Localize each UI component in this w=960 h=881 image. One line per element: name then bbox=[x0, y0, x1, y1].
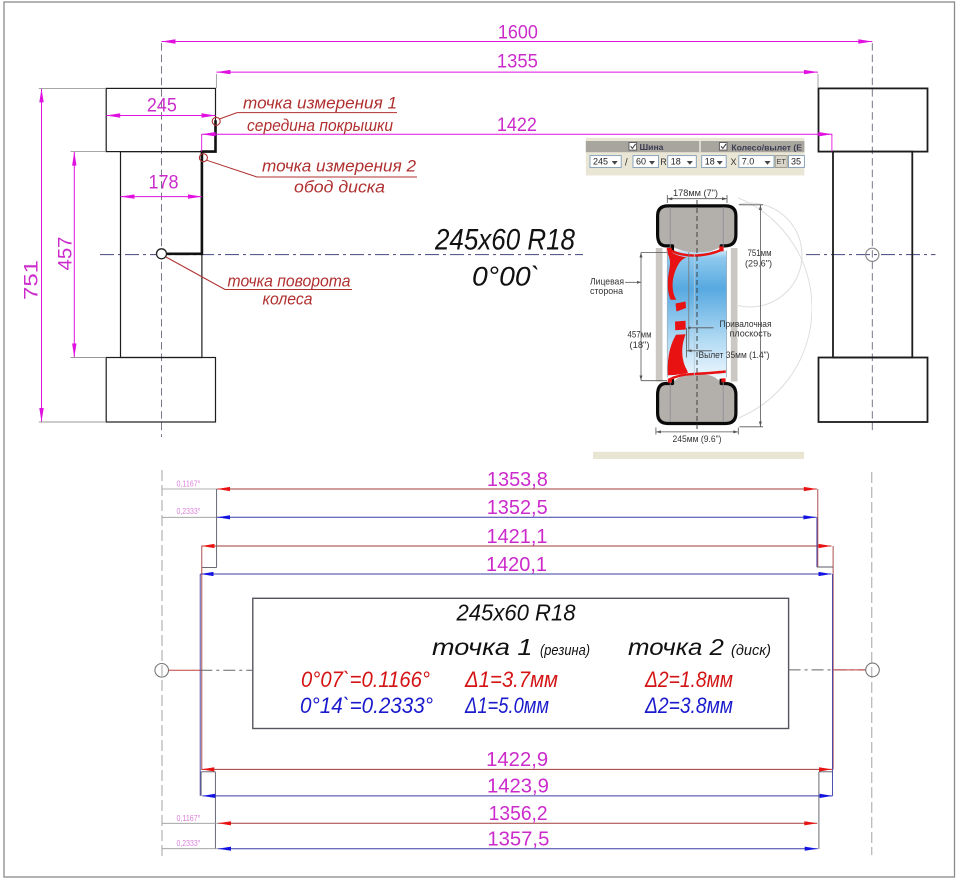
screenshot dim vylet 35mm bbox=[687, 328, 770, 360]
svg-text:245мм (9.6"): 245мм (9.6") bbox=[673, 434, 722, 444]
svg-text:0°00`: 0°00` bbox=[472, 262, 540, 292]
witness left jog bottom bbox=[201, 771, 215, 773]
witness right bottom vertical bbox=[818, 772, 820, 849]
svg-text:1352,5: 1352,5 bbox=[487, 496, 548, 519]
svg-text:Δ1=5.0мм: Δ1=5.0мм bbox=[464, 693, 549, 718]
tire sidewall strip right bbox=[731, 248, 738, 382]
dimension 457 bbox=[55, 152, 107, 358]
svg-text:точка измерения 1: точка измерения 1 bbox=[243, 95, 397, 113]
label pivot: tochka povorota kolesa bbox=[166, 257, 352, 309]
results table box bbox=[253, 598, 789, 728]
svg-text:Колесо/вылет (Е: Колесо/вылет (Е bbox=[731, 142, 802, 152]
svg-text:1422: 1422 bbox=[497, 114, 537, 136]
rim spoke upper red bbox=[667, 249, 687, 300]
svg-text:0°07`=0.1166°: 0°07`=0.1166° bbox=[301, 667, 430, 692]
dimension 178 bbox=[121, 171, 202, 199]
witness left red vertical bbox=[201, 546, 203, 769]
mounting plane thin line bbox=[688, 252, 690, 351]
svg-text:ET: ET bbox=[776, 157, 786, 166]
witness left bottom vertical bbox=[214, 772, 216, 849]
svg-text:(18"): (18") bbox=[630, 340, 650, 350]
svg-text:0,2333°: 0,2333° bbox=[177, 507, 201, 516]
witness left tire vertical bbox=[216, 489, 218, 568]
svg-text:1356,2: 1356,2 bbox=[489, 802, 548, 825]
svg-text:сторона: сторона bbox=[590, 286, 623, 296]
witness right jog bottom bbox=[819, 771, 833, 773]
rim red segment mid bbox=[676, 302, 687, 312]
screenshot label litsevaya storona bbox=[590, 277, 641, 297]
bottom tire block bbox=[657, 374, 736, 424]
screenshot dim 245mm bbox=[656, 428, 738, 445]
svg-text:Δ2=1.8мм: Δ2=1.8мм bbox=[644, 667, 733, 692]
dropdown R18 bbox=[668, 156, 697, 168]
svg-text:точка поворота: точка поворота bbox=[228, 273, 351, 291]
svg-text:R: R bbox=[660, 157, 667, 167]
checkbox shina bbox=[629, 143, 637, 151]
witness right blue vertical bbox=[832, 574, 834, 796]
barrel edge line right bbox=[726, 251, 728, 378]
screenshot dim 751mm bbox=[739, 205, 772, 427]
ext line bottom B7 bbox=[162, 822, 218, 824]
svg-text:0,1167°: 0,1167° bbox=[177, 479, 201, 488]
svg-text:1423,9: 1423,9 bbox=[487, 775, 549, 798]
screenshot white background bbox=[584, 136, 806, 460]
svg-text:Шина: Шина bbox=[640, 142, 664, 152]
bottom right dashed centerline vertical bbox=[871, 472, 873, 855]
tire sidewall strip left bbox=[656, 248, 663, 382]
right wheel vertical centerline bbox=[871, 43, 873, 433]
field 35 bbox=[789, 156, 805, 168]
dropdown 7.0 bbox=[739, 156, 774, 168]
barrel inner faint line bbox=[693, 252, 695, 377]
right wheel tire bottom rectangle bbox=[819, 358, 928, 423]
witness right red vertical bbox=[832, 546, 834, 769]
svg-text:751: 751 bbox=[21, 260, 43, 300]
dimension 1421,1 bbox=[202, 525, 832, 548]
svg-text:1353,8: 1353,8 bbox=[487, 468, 548, 491]
svg-text:178мм (7"): 178мм (7") bbox=[673, 188, 718, 198]
svg-text:457: 457 bbox=[55, 237, 77, 271]
dimension 1600 bbox=[162, 22, 873, 44]
svg-text:18: 18 bbox=[671, 157, 681, 167]
svg-text:/: / bbox=[625, 157, 628, 168]
dimension 1422 bbox=[202, 114, 833, 151]
svg-text:1421,1: 1421,1 bbox=[487, 525, 548, 548]
svg-text:Вылет 35мм (1.4"): Вылет 35мм (1.4") bbox=[699, 350, 770, 360]
svg-text:1600: 1600 bbox=[498, 22, 538, 44]
left wheel measurement polyline thick bbox=[167, 120, 216, 254]
dimension 1423,9 bbox=[202, 775, 832, 798]
rim width line left inside bottom tire bbox=[669, 382, 671, 422]
svg-text:245x60 R18: 245x60 R18 bbox=[434, 224, 575, 257]
svg-text:середина покрышки: середина покрышки bbox=[247, 117, 393, 135]
svg-text:точка измерения 2: точка измерения 2 bbox=[262, 158, 416, 176]
witness left blue vertical bbox=[199, 574, 201, 796]
ext line top A2 bbox=[162, 516, 217, 518]
ET button bbox=[775, 156, 787, 168]
top tire block bbox=[657, 206, 736, 252]
bottom centerline red segment left bbox=[169, 669, 201, 671]
witness right blue vertical top bbox=[816, 517, 818, 567]
axle centerline horizontal right segment bbox=[806, 254, 936, 256]
svg-text:245: 245 bbox=[147, 95, 177, 117]
svg-text:245x60 R18: 245x60 R18 bbox=[456, 600, 576, 626]
dimension 1356,2 bbox=[218, 802, 817, 825]
left wheel pivot circle bbox=[157, 249, 167, 259]
bottom left dashed centerline vertical bbox=[161, 470, 163, 856]
dimension 1355 bbox=[216, 50, 818, 88]
label point 1: tochka izmereniya 1 / seredina pokryshki bbox=[212, 95, 397, 135]
right wheel rim rectangle bbox=[833, 152, 912, 358]
rim width line right inside bottom tire bbox=[722, 382, 724, 422]
svg-text:0,2333°: 0,2333° bbox=[177, 839, 201, 848]
svg-text:X: X bbox=[730, 157, 736, 167]
svg-text:245: 245 bbox=[593, 157, 608, 167]
screenshot dim 178mm label bbox=[667, 188, 727, 203]
left wheel vertical centerline bbox=[161, 43, 163, 437]
svg-text:1355: 1355 bbox=[497, 50, 538, 72]
calculator beige panel bbox=[586, 138, 805, 176]
svg-text:обод диска: обод диска bbox=[294, 178, 385, 196]
svg-text:1422,9: 1422,9 bbox=[486, 748, 548, 771]
svg-text:0°14`=0.2333°: 0°14`=0.2333° bbox=[300, 693, 433, 718]
axle centerline horizontal left segment bbox=[100, 254, 583, 256]
dimension 1420,1 bbox=[201, 553, 832, 576]
rim red hub block bbox=[675, 321, 686, 331]
bottom centerline right circle bbox=[866, 663, 880, 677]
bottom centerline dash left bbox=[200, 669, 253, 671]
dimension 1353,8 bbox=[217, 468, 817, 491]
screenshot bottom beige bar bbox=[593, 452, 804, 459]
svg-text:1357,5: 1357,5 bbox=[487, 828, 549, 851]
tire centerline dashed bbox=[696, 200, 698, 430]
screenshot label privalochnaya ploskost bbox=[688, 319, 772, 339]
witness right red vertical top bbox=[817, 489, 819, 567]
svg-text:0,1167°: 0,1167° bbox=[177, 814, 201, 823]
left wheel tire bottom rectangle bbox=[106, 358, 215, 423]
rim width line left inside top tire bbox=[669, 207, 671, 247]
dimension 1422,9 bbox=[201, 748, 832, 771]
checkbox koleso bbox=[719, 143, 727, 151]
rim width line right inside top tire bbox=[722, 207, 724, 247]
svg-text:457мм: 457мм bbox=[628, 330, 652, 340]
ext line top A1 bbox=[162, 488, 217, 490]
svg-text:Привалочная: Привалочная bbox=[720, 319, 772, 329]
label point 2: tochka izmereniya 2 / obod diska bbox=[199, 154, 417, 197]
left wheel rim rectangle bbox=[121, 152, 202, 358]
svg-text:(29.6"): (29.6") bbox=[745, 259, 772, 269]
dropdown 245 bbox=[590, 156, 621, 168]
faint comparison circle large bbox=[574, 189, 812, 427]
svg-text:Δ2=3.8мм: Δ2=3.8мм bbox=[644, 693, 733, 718]
dimension 1352,5 bbox=[217, 496, 816, 519]
svg-text:7.0: 7.0 bbox=[742, 157, 755, 167]
witness left jog top bbox=[202, 567, 217, 569]
screenshot dim 457mm bbox=[628, 253, 668, 381]
rim bead block top-left red bbox=[667, 248, 672, 253]
svg-text:1420,1: 1420,1 bbox=[486, 553, 547, 576]
dimension 1357,5 bbox=[218, 828, 818, 851]
svg-text:Лицевая: Лицевая bbox=[590, 277, 624, 287]
rim bead block bottom-left red bbox=[668, 379, 672, 383]
rim spoke lower red bbox=[668, 334, 688, 375]
dropdown disk 18 bbox=[702, 156, 727, 168]
bottom centerline red segment right bbox=[833, 669, 866, 671]
witness left short vertical bbox=[200, 772, 202, 796]
right wheel tire top rectangle bbox=[819, 88, 928, 151]
rim red strip bottom bbox=[670, 372, 726, 380]
svg-text:Δ1=3.7мм: Δ1=3.7мм bbox=[464, 667, 558, 692]
svg-text:751мм: 751мм bbox=[748, 248, 772, 258]
rim flange red strip top bbox=[670, 249, 724, 256]
dropdown 60 bbox=[633, 156, 659, 168]
svg-text:178: 178 bbox=[149, 171, 179, 193]
svg-text:колеса: колеса bbox=[263, 291, 313, 309]
right wheel center circle bbox=[866, 248, 879, 261]
svg-text:60: 60 bbox=[636, 157, 646, 167]
calculator gray header band bbox=[586, 141, 805, 152]
rim bead block bottom-right red bbox=[721, 378, 725, 382]
bottom centerline left circle bbox=[155, 664, 169, 678]
witness right jog top bbox=[817, 566, 833, 568]
dimension 751 bbox=[21, 88, 107, 422]
rim bead block top-right red bbox=[719, 246, 723, 251]
svg-text:плоскость: плоскость bbox=[730, 329, 772, 339]
barrel edge line left bbox=[666, 251, 668, 378]
left wheel tire top rectangle bbox=[106, 88, 215, 151]
bottom centerline dash right bbox=[789, 669, 866, 671]
ext line bottom B8 bbox=[162, 848, 218, 850]
dimension 245 bbox=[106, 95, 215, 118]
svg-text:35: 35 bbox=[791, 157, 801, 167]
svg-text:18: 18 bbox=[705, 157, 715, 167]
